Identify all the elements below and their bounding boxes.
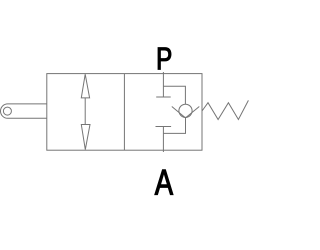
check valve seat (172, 107, 200, 118)
roller plunger actuator body (0, 104, 46, 118)
port A stub (162, 150, 164, 152)
valve body (two-position envelope) (47, 74, 202, 151)
blocked port bar (bottom) (156, 126, 172, 128)
position divider (123, 74, 125, 151)
port label P (158, 48, 171, 70)
wire A into box (162, 127, 164, 151)
wire from check valve to A line (163, 118, 185, 133)
port label A (155, 170, 173, 195)
flow arrow up head (left position) (81, 74, 89, 98)
roller wheel (3, 107, 11, 115)
check valve ball (179, 104, 192, 117)
flow arrow shaft (84, 98, 86, 125)
blocked port bar (top) (156, 96, 171, 98)
port P stub (162, 72, 164, 74)
flow arrow down head (81, 125, 90, 150)
return spring (202, 100, 248, 119)
wire P into box (162, 74, 164, 97)
wire branch to check valve (163, 86, 185, 104)
